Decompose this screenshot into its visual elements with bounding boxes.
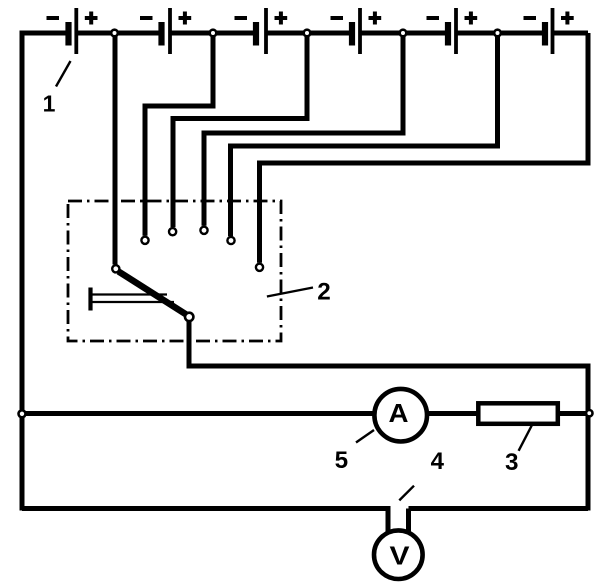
svg-text:V: V xyxy=(390,540,411,570)
switch contact terminal T1 xyxy=(112,265,119,272)
svg-text:2: 2 xyxy=(317,278,331,305)
leader line for label 5 xyxy=(356,430,374,443)
battery 4 minus label xyxy=(331,16,344,20)
svg-text:4: 4 xyxy=(431,448,445,475)
svg-text:1: 1 xyxy=(43,90,56,116)
wire tap 3 from node J3 xyxy=(173,33,307,227)
voltmeter V (4) xyxy=(374,530,423,579)
battery 5 minus label xyxy=(427,16,440,20)
node junction J5 xyxy=(494,30,501,37)
wire tap 4 from node J4 xyxy=(204,33,403,226)
battery cell 4 xyxy=(352,8,360,54)
battery 1 plus label xyxy=(85,12,98,25)
svg-text:A: A xyxy=(389,398,409,428)
wire resistor to right node xyxy=(558,411,588,416)
wire left side vertical xyxy=(20,33,25,511)
battery 5 plus label xyxy=(465,12,478,25)
node junction left (middle row) xyxy=(19,410,26,417)
leader line for label 3 xyxy=(519,425,532,451)
leader line for label 2 xyxy=(267,288,313,297)
battery cell 2 xyxy=(162,8,171,54)
switch contact terminal T5 xyxy=(227,237,234,244)
node junction J1 xyxy=(111,30,118,37)
leader line for label 1 xyxy=(56,61,71,87)
switch wiper arm xyxy=(119,272,188,316)
node junction J3 xyxy=(304,30,311,37)
wire tap 5 from node J5 xyxy=(231,33,498,236)
svg-text:5: 5 xyxy=(335,447,349,474)
leader line for label 4 xyxy=(399,486,414,501)
wire tap 1 from node J1 down to switch contact xyxy=(113,33,118,265)
battery 3 plus label xyxy=(275,12,288,25)
switch contact terminal T2 xyxy=(141,237,148,244)
battery 2 plus label xyxy=(179,12,192,25)
ammeter A (5) xyxy=(374,389,427,442)
resistor 3 xyxy=(478,403,558,424)
battery 2 minus label xyxy=(140,16,153,20)
battery 1 minus label xyxy=(47,16,60,20)
switch handle shaft xyxy=(91,288,175,311)
wire top bus y=33 xyxy=(22,31,588,34)
battery 6 plus label xyxy=(561,12,574,25)
battery 6 minus label xyxy=(524,16,537,20)
battery cell 1 xyxy=(69,8,77,54)
switch contact terminal T6 xyxy=(256,264,263,271)
battery cell 6 xyxy=(545,8,553,54)
node junction right (resistor output) xyxy=(586,410,592,416)
wire switch output to right side xyxy=(189,321,588,511)
battery 3 minus label xyxy=(235,16,248,20)
switch enclosure box 2 (dash-dot) xyxy=(68,201,281,341)
node junction J4 xyxy=(400,30,407,37)
switch contact terminal T3 xyxy=(169,228,176,235)
switch contact terminal T4 xyxy=(200,227,207,234)
svg-text:3: 3 xyxy=(505,449,519,476)
wire bottom row xyxy=(22,509,388,533)
node junction J2 xyxy=(210,30,217,37)
wire middle row (ammeter row) xyxy=(22,411,375,416)
wire voltmeter right lead xyxy=(406,509,411,533)
battery 4 plus label xyxy=(369,12,382,25)
switch wiper pivot xyxy=(185,313,193,321)
wire ammeter to resistor xyxy=(426,411,480,416)
battery cell 3 xyxy=(256,8,266,54)
wire tap 2 from node J2 xyxy=(145,33,213,236)
wire tap 6 from right top corner xyxy=(260,33,589,263)
battery cell 5 xyxy=(448,8,456,54)
